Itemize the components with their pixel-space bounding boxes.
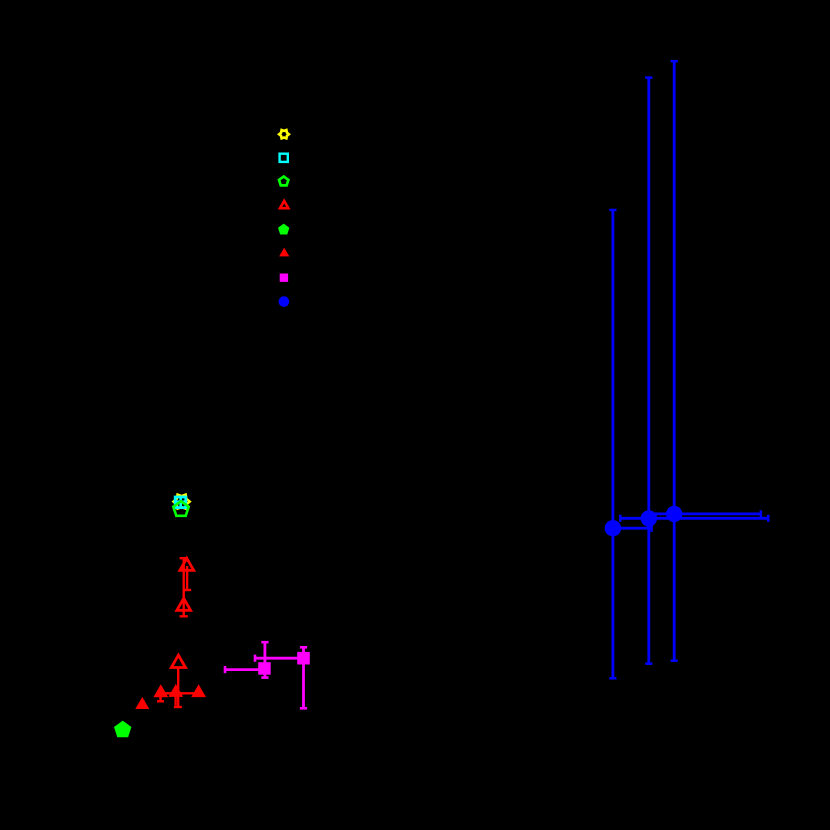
error bar cap top V2 [645,76,652,79]
data point: red filled triangle T3 [191,684,206,697]
error bar cap (707) [174,706,182,708]
error bar cap left H2 [619,515,622,522]
error bar: magenta vertical for square S2 [302,647,305,708]
data point: cyan open square [175,497,186,508]
error bar: cyan horizontal [176,500,186,503]
error bar: blue vertical line 3 [673,61,676,661]
error bar: blue horizontal for P2 [620,517,768,520]
data point: blue filled circle P3 [666,506,682,522]
error bar: magenta vertical for square S1 [263,642,266,677]
data point: red filled triangle T1 [153,684,168,697]
error bar cap top S1 (642) [261,641,268,644]
legend marker: red filled triangle series 6 [279,248,289,257]
error bar cap bottom (616) [180,615,188,617]
data point: blue filled circle P1 [605,520,621,536]
error bar: magenta horizontal S2 [255,657,298,660]
data point: red open triangle A [180,558,194,570]
legend marker: red open triangle series 4 [280,201,288,208]
error bar cap top S2 (647) [300,646,307,649]
legend marker: blue filled circle series 8 [279,296,290,307]
error bar: red vertical for open triangle B (183.7) [182,558,184,616]
data point: yellow open star at cluster (181,501) [173,495,189,509]
legend marker: green filled pentagon series 5 [278,224,289,235]
legend marker: green open pentagon series 3 [279,177,288,186]
error bar: cyan vertical [179,497,182,506]
error bar cap (701) [157,700,164,702]
data point: red open triangle B [177,598,191,610]
data point: magenta filled square S1 [258,662,271,675]
data point: red open triangle C [171,655,185,667]
data point: magenta filled square S2 [297,652,310,665]
data point: red filled triangle T4 (small, lower-left) [135,697,149,709]
error bar cap right H2 [767,515,770,522]
error bar cap bottom S1 (677.5) [261,676,268,679]
error bar cap right H3 [760,510,763,517]
data point: red filled triangle T2 [168,684,183,697]
legend marker: yellow open star series 1 [279,130,289,138]
error bar cap left S2 (255) [254,655,257,662]
error bar cap bottom V1 [609,677,616,680]
error bar: red horizontal through filled triangles [158,692,196,694]
error bar: red vertical at T2 [174,694,176,706]
data point: green open pentagon [173,501,188,516]
error bar: red vertical at T1 [159,694,161,701]
error bar: blue vertical line 2 [647,78,650,664]
error bar: blue horizontal for P3 [648,513,761,516]
error bar cap bottom V2 [645,662,652,665]
error bar: blue horizontal for P1 [608,527,652,530]
error bar cap bottom S2 (708) [300,707,307,710]
error bar cap top V3 [671,60,678,63]
error bar cap bottom V3 [671,659,678,662]
legend marker: magenta filled square series 7 [280,274,288,282]
legend marker: cyan open square series 2 [280,154,288,162]
error bar cap top V1 [609,209,616,212]
error bar: magenta horizontal S1 [225,668,259,671]
error bar cap right H1 [650,525,653,532]
error bar cap (590) [183,589,191,591]
data point: green filled pentagon [114,721,131,738]
error bar cap left S1 (225) [224,666,227,673]
error bar: red vertical for open triangle C [177,667,179,707]
error bar cap top (558) [180,557,188,559]
data point: blue filled circle P2 [641,510,657,526]
error bar: red vertical for open triangle A (187) [186,566,188,590]
error bar: blue vertical line 1 [612,210,615,678]
